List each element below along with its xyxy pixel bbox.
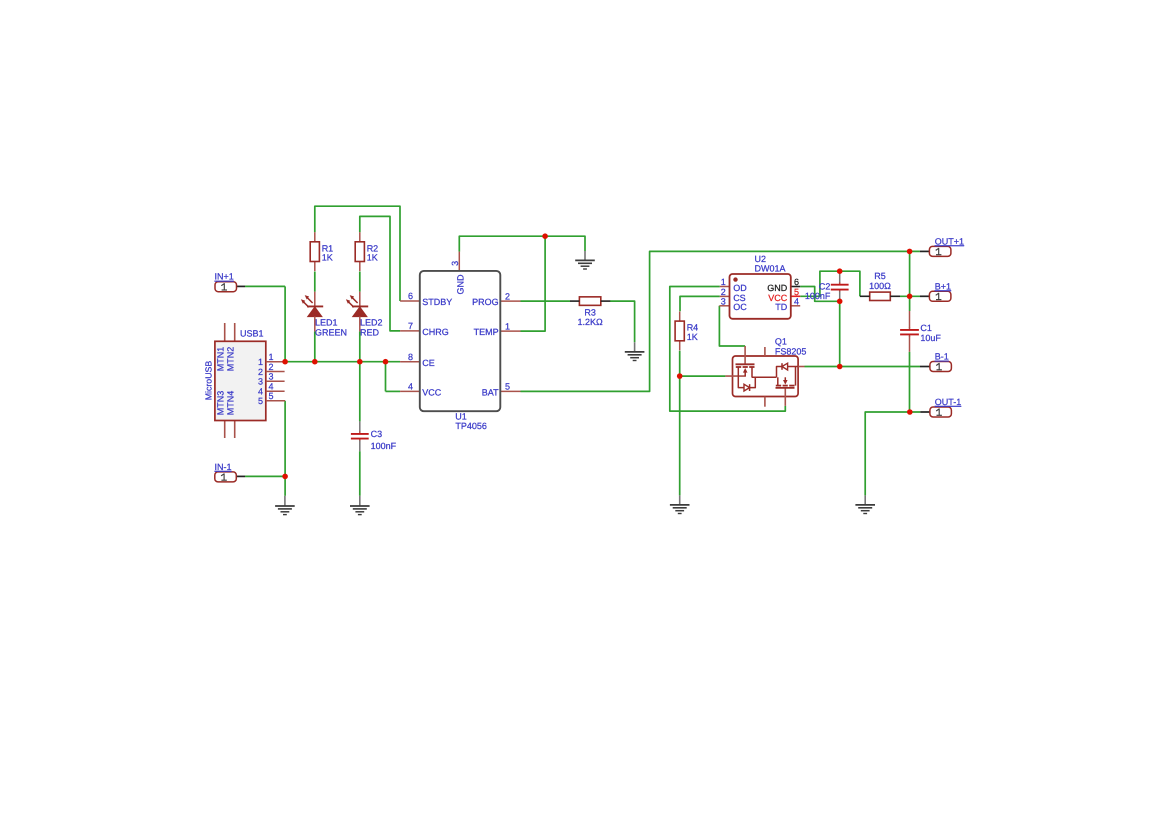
svg-text:TEMP: TEMP [474,327,499,337]
wire CE line to C3 [359,362,361,422]
svg-text:R5: R5 [874,271,886,281]
svg-text:MTN2: MTN2 [226,347,236,372]
svg-text:1: 1 [268,352,273,362]
wire OUT- to ground [865,412,920,495]
svg-text:2: 2 [268,362,273,372]
svg-text:USB1: USB1 [240,329,264,339]
svg-text:1K: 1K [687,332,698,342]
IC U2 DW01A [719,254,800,319]
wire C2 bottom to B- line [839,301,841,366]
svg-text:LED2: LED2 [360,318,383,328]
svg-text:STDBY: STDBY [422,297,452,307]
svg-text:B+1: B+1 [935,281,951,291]
svg-text:R3: R3 [584,307,596,317]
svg-text:BAT: BAT [482,388,499,398]
svg-text:C2: C2 [819,281,831,291]
svg-text:3: 3 [721,296,726,306]
wire CE-VCC drop [385,362,387,392]
svg-text:4: 4 [268,382,273,392]
svg-text:4: 4 [258,387,263,397]
wire R4 bottom to ground [679,351,681,496]
wire R1 top riser [315,206,400,301]
svg-text:OC: OC [733,302,747,312]
svg-text:OUT-1: OUT-1 [935,397,962,407]
svg-text:100nF: 100nF [371,441,397,451]
svg-text:Q1: Q1 [775,337,787,347]
svg-text:4: 4 [408,382,413,392]
svg-text:1: 1 [721,277,726,287]
svg-text:MicroUSB: MicroUSB [204,361,214,401]
wire R1 to LED1 [314,272,316,292]
resistor R3 1.2K [579,297,600,306]
svg-text:IN+1: IN+1 [215,272,234,282]
node OUT- junction [907,409,913,415]
svg-text:100Ω: 100Ω [869,281,891,291]
wire OUT- port stub [920,411,930,413]
wire BAT to OUT+ [521,251,920,391]
port IN+1 [215,282,237,292]
wire U2 OD down and across [670,287,786,412]
svg-text:3: 3 [258,377,263,387]
svg-text:5: 5 [268,391,273,401]
svg-text:1K: 1K [322,253,333,263]
ground U1 GND rail [584,251,586,260]
wire IN+ port stub [236,285,245,287]
wire B+ port stub [920,295,929,297]
resistor R4 1K [679,312,681,322]
wire CE line [285,361,400,363]
svg-text:C3: C3 [371,429,383,439]
svg-text:MTN4: MTN4 [226,391,236,416]
svg-text:MTN3: MTN3 [216,391,226,416]
wire IN- port stub [236,475,245,477]
svg-text:1: 1 [505,321,510,331]
svg-text:7: 7 [408,321,413,331]
svg-text:TD: TD [775,302,787,312]
resistor R5 100 [870,292,891,300]
ground under OUT- [864,495,866,505]
svg-text:B-1: B-1 [935,352,949,362]
svg-text:3: 3 [268,372,273,382]
svg-text:1.2KΩ: 1.2KΩ [577,317,603,327]
port OUT-1 [930,407,952,417]
svg-text:MTN1: MTN1 [216,347,226,372]
wire R2 to LED2 [359,272,361,292]
ground under R3 [634,342,636,352]
svg-text:10uF: 10uF [920,333,941,343]
wire R2 top riser [360,216,400,331]
wire C1 bottom to OUT- [909,352,911,412]
resistor R1 1K [314,232,316,242]
node IN- junction [282,474,288,480]
svg-text:3: 3 [450,261,460,266]
connector USB1 MicroUSB [204,323,285,438]
capacitor C2 100nF [839,271,841,283]
wire LED1 bottom to CE line [314,331,316,361]
svg-text:IN-1: IN-1 [215,462,232,472]
svg-text:OUT+1: OUT+1 [935,236,964,246]
wire B- port stub [920,366,930,368]
svg-text:GND: GND [456,274,466,295]
node R4-Q1 junction [677,373,683,379]
node C2 bottom junction [837,299,843,305]
ground under IN- [284,496,286,506]
transistor Q1 FS8205 [725,337,806,407]
svg-text:4: 4 [794,296,799,306]
port IN-1 [215,472,237,482]
svg-text:CHRG: CHRG [422,327,449,337]
ground under C3 [359,496,361,506]
wire U1 GND to top rail [459,236,585,251]
resistor R2 1K [359,232,361,242]
wire PROG to R3 [521,300,571,302]
svg-text:2: 2 [258,367,263,377]
LED LED1 GREEN [314,292,316,307]
wire U2 VCC to C2 top [800,271,860,296]
node C2 top junction [837,268,843,274]
ground under R4 [679,495,681,505]
LED LED2 RED [359,292,361,307]
wire OUT+ port stub [920,250,930,252]
wire OUT+ riser to C1 [909,251,911,311]
svg-text:100nF: 100nF [805,291,831,301]
svg-text:OD: OD [733,283,747,293]
wire R5 right to B+ [900,295,920,297]
svg-text:GREEN: GREEN [315,327,347,337]
svg-text:2: 2 [505,291,510,301]
capacitor C1 10uF [909,311,911,328]
svg-text:RED: RED [360,327,380,337]
svg-text:PROG: PROG [472,297,499,307]
port B-1 [930,362,952,372]
svg-text:6: 6 [794,277,799,287]
wire U2 GND to C2 bottom [800,287,840,302]
svg-text:U1: U1 [455,412,467,422]
port B+1 [929,291,951,301]
wire IN- to vertical [245,475,285,477]
svg-text:1K: 1K [367,253,378,263]
capacitor C3 100nF [359,421,361,432]
wire R3 to ground [610,301,635,342]
node CE junction [383,359,389,365]
svg-text:1: 1 [258,357,263,367]
node LED2 junction [357,359,363,365]
node USB pin1 junction [282,359,288,365]
wire TEMP to GND rail [521,236,546,331]
wire to VCC pin [386,390,401,392]
svg-text:TP4056: TP4056 [455,421,487,431]
wire C3 to ground [359,451,361,496]
node C2-B- junction [837,364,843,370]
wire IN+ to vertical [245,285,285,287]
wire B- line [805,366,921,368]
wire U2 CS to R4 top [680,296,720,311]
svg-text:FS8205: FS8205 [775,347,807,357]
svg-text:VCC: VCC [422,388,442,398]
node B+ junction [907,294,913,300]
wire R4 node to Q1 left pin [680,375,726,377]
svg-text:GND: GND [767,283,788,293]
node GND rail junction [542,233,548,239]
node OUT+ junction [907,249,913,255]
svg-text:5: 5 [505,382,510,392]
op-amp U1 TP4056 [400,252,520,431]
svg-text:5: 5 [258,396,263,406]
port OUT+1 [929,246,951,256]
wire USB pin5 down to ground [284,401,286,496]
wire LED2 bottom to CE line [359,331,361,361]
svg-text:8: 8 [408,352,413,362]
wire U2 OC to Q1 gate [719,306,745,346]
node LED1 junction [312,359,318,365]
svg-text:CE: CE [422,358,435,368]
wire vertical IN+ down to CE line [284,286,286,361]
svg-text:C1: C1 [920,323,932,333]
svg-text:LED1: LED1 [315,318,338,328]
svg-text:6: 6 [408,291,413,301]
svg-text:DW01A: DW01A [755,264,786,274]
